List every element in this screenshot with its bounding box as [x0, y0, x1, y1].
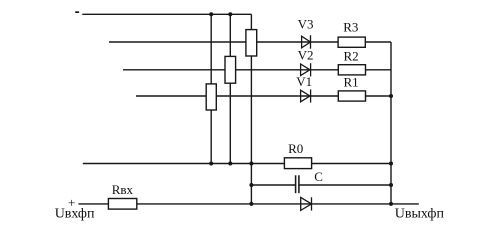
node R0 bus col1	[209, 162, 213, 166]
node R0 bus right	[389, 162, 393, 166]
diode V3	[302, 35, 311, 49]
capacitor C	[296, 175, 299, 193]
wire capacitor line left	[251, 184, 295, 186]
node bottom right	[389, 202, 393, 206]
node R1 right	[389, 94, 393, 98]
wire vertical column 1	[210, 14, 212, 163]
wire top bus	[82, 13, 251, 15]
node top bus col1	[209, 12, 213, 16]
svg-text:R2: R2	[344, 48, 359, 63]
node R0 bus col2	[228, 162, 232, 166]
svg-text:V3: V3	[298, 17, 314, 32]
node top bus col2	[228, 12, 232, 16]
svg-text:R1: R1	[344, 74, 359, 89]
svg-text:R0: R0	[288, 141, 303, 156]
wire vertical column 3	[250, 14, 252, 204]
svg-text:V2: V2	[298, 47, 314, 62]
svg-text:C: C	[314, 169, 323, 184]
resistor vertical col1	[206, 84, 216, 110]
resistor R1	[338, 91, 365, 101]
svg-text:V1: V1	[296, 74, 312, 89]
wire vertical column 2	[229, 14, 231, 163]
wire input line 3	[123, 69, 391, 71]
diode bottom	[301, 197, 312, 210]
resistor R0	[284, 158, 311, 169]
resistor vertical col3	[246, 30, 257, 56]
node C line col3	[249, 183, 253, 187]
wire R0 bus	[83, 163, 391, 165]
wire right vertical	[390, 42, 392, 204]
label minus	[75, 11, 79, 13]
diode V1	[301, 89, 311, 102]
node C line right	[389, 183, 393, 187]
svg-text:Uвыхфп: Uвыхфп	[395, 207, 445, 222]
wire input line 4	[136, 95, 391, 97]
diode V2	[301, 63, 311, 76]
svg-text:Uвхфп: Uвхфп	[55, 207, 95, 222]
node bottom col3	[249, 202, 253, 206]
wire input line 2	[109, 41, 391, 43]
resistor vertical col2	[225, 56, 236, 83]
wire capacitor line right	[299, 184, 391, 186]
wire bottom line	[78, 203, 418, 205]
svg-text:R3: R3	[343, 20, 358, 35]
resistor Rvx	[108, 199, 136, 210]
svg-text:Rвх: Rвх	[112, 182, 134, 197]
resistor R2	[338, 65, 365, 75]
node R0 bus col3	[249, 162, 253, 166]
resistor R3	[338, 37, 365, 47]
